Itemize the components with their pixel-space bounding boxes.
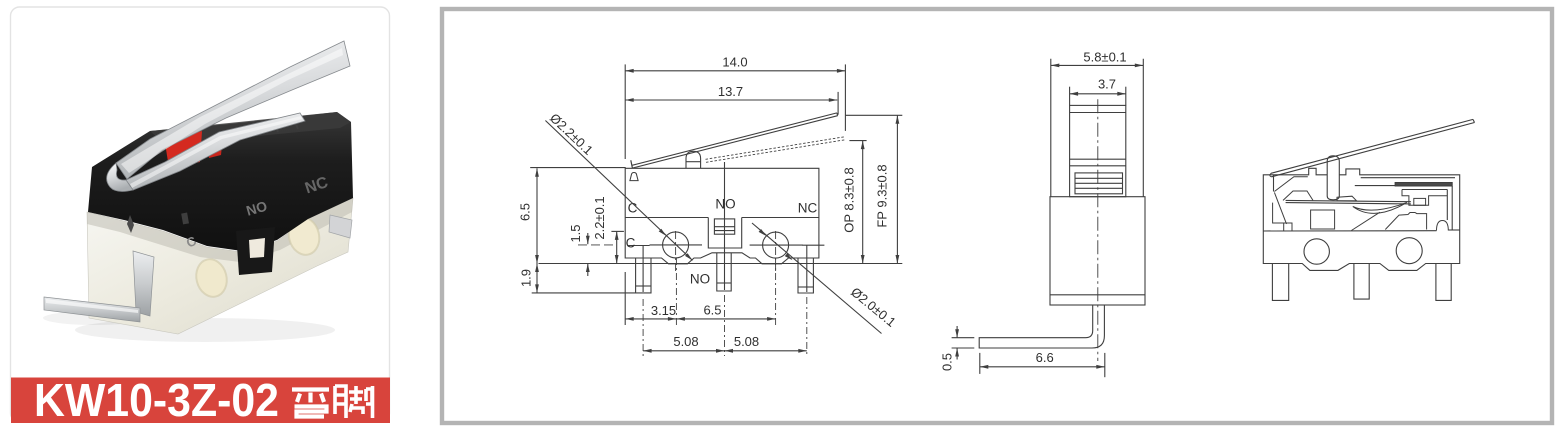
front view: plunger roller [686, 151, 701, 168]
photo: NO plunger housing on base [236, 227, 275, 275]
bottom reference line [539, 263, 903, 265]
svg-text:3.15: 3.15 [651, 303, 676, 318]
section view: right trapezoid bump [1385, 213, 1426, 230]
section view: internal diagonal wall [1351, 212, 1380, 230]
svg-text:OP 8.3±0.8: OP 8.3±0.8 [842, 167, 857, 232]
svg-text:C: C [626, 236, 636, 251]
side view: dim 6.6 [980, 366, 1105, 368]
photo: metal lever U-bend at left [107, 163, 133, 191]
photo: base terminal holes [192, 256, 230, 300]
svg-text:6.6: 6.6 [1036, 350, 1054, 365]
section view: NC contact bar [1395, 183, 1452, 187]
photo: small molded arrow mark [127, 215, 134, 233]
section view: pin right [1436, 264, 1451, 301]
front view: lever free position [631, 160, 633, 168]
section view: bottom outline [1263, 231, 1459, 270]
photo: red button visible through lever slot [165, 131, 202, 168]
side view: dim 3.7 [1070, 93, 1126, 95]
side view: dim 0.5 [952, 337, 975, 339]
side view: dim 5.8±0.1 [1051, 64, 1144, 66]
side view: bent pin [979, 305, 1104, 348]
svg-text:13.7: 13.7 [718, 84, 743, 99]
svg-text:6.5: 6.5 [703, 303, 721, 318]
dim 1.9 left [535, 264, 539, 273]
dim 1.5 [587, 233, 589, 244]
section view: spring support wedge [1337, 196, 1357, 201]
dim 13.7 [625, 99, 837, 101]
CJK char 脚 (foot) drawn [335, 386, 373, 418]
dim 6.5 left [530, 167, 626, 169]
front view: terminal pin NO [717, 253, 731, 291]
svg-text:1.9: 1.9 [519, 269, 534, 287]
svg-text:FP 9.3±0.8: FP 9.3±0.8 [875, 164, 890, 227]
section view: pin center [1354, 264, 1369, 300]
side view: lever cap [1070, 105, 1126, 196]
front view: center line through plunger [724, 162, 726, 290]
svg-text:NC: NC [798, 201, 818, 216]
svg-text:2.2±0.1: 2.2±0.1 [592, 196, 607, 239]
side view: centerline [1097, 99, 1099, 361]
dim FP 9.3±0.8 [845, 114, 902, 116]
svg-text:NO: NO [690, 272, 710, 287]
photo: bent PCB pin (L-shape) bottom-left [133, 251, 154, 316]
photo: lever highlight [121, 48, 343, 173]
front view: terminal hole NC [763, 232, 789, 258]
svg-text:14.0: 14.0 [722, 55, 747, 70]
svg-text:Ø2.0±0.1: Ø2.0±0.1 [848, 284, 899, 330]
section view: plunger capsule [1327, 156, 1339, 200]
leader Ø2.2±0.1 [545, 121, 692, 261]
photo frame [11, 7, 390, 422]
dim OP 8.3±0.8 [849, 140, 866, 142]
section view: hole right [1396, 238, 1422, 264]
photo: body top face [150, 112, 351, 145]
photo: drop shadow under switch [75, 318, 335, 342]
svg-text:Ø2.2±0.1: Ø2.2±0.1 [547, 110, 596, 158]
svg-text:0.5: 0.5 [940, 353, 955, 371]
model banner [11, 378, 390, 424]
side view: lever folded leaf [1075, 173, 1123, 194]
section view: NC contact block [1402, 190, 1447, 206]
section view: base top line [1263, 230, 1436, 232]
section view: movable spring arm [1286, 200, 1411, 201]
front view: body outline [625, 168, 819, 263]
svg-text:1.5: 1.5 [568, 224, 583, 242]
front view: terminal pin C [636, 258, 651, 293]
side view: body [1050, 197, 1145, 305]
photo: black switch body [88, 112, 353, 251]
CJK char 弯 (bent) drawn [292, 390, 329, 417]
front view: C terminal tick [628, 245, 649, 247]
section view: right arch bump [1437, 221, 1449, 231]
section view: internal left step [1273, 203, 1292, 231]
dim 2.2±0.1 [616, 231, 618, 263]
svg-text:3.7: 3.7 [1098, 77, 1116, 92]
svg-text:5.08: 5.08 [734, 334, 759, 349]
section view: curved spring [1353, 203, 1407, 214]
front view: NO contact window [714, 219, 734, 234]
section view: right inner walls [1451, 186, 1453, 231]
dim 5.08 x2 [643, 350, 807, 352]
photo: metal lever lower strip (folded return) [126, 113, 305, 190]
front view: terminal pin NC [798, 258, 813, 293]
leader Ø2.0±0.1 [752, 223, 882, 334]
svg-text:NO: NO [715, 197, 735, 212]
section view: lever [1271, 119, 1473, 173]
front view: internal horizontal wall [625, 217, 708, 219]
svg-text:5.8±0.1: 5.8±0.1 [1083, 49, 1126, 64]
section view: body outline top [1263, 168, 1459, 264]
svg-text:6.5: 6.5 [518, 203, 533, 221]
section view: inner top lines [1361, 177, 1455, 179]
front view: plunger channel [708, 218, 741, 249]
photo: NC side pin [329, 215, 352, 238]
section view: center contact block [1311, 210, 1335, 229]
front view: bell mark [630, 173, 638, 181]
front view: terminal hole C [663, 232, 689, 258]
photo: metal lever main strip [116, 41, 350, 179]
section view: hole left [1304, 239, 1329, 264]
svg-text:5.08: 5.08 [673, 334, 698, 349]
section view: pin left [1272, 264, 1288, 301]
front view: lever pressed position (dashed) [706, 137, 844, 159]
dim 14.0 [625, 70, 845, 72]
section view: spring anchor left [1273, 175, 1275, 192]
front view: NC terminal tick [802, 244, 824, 246]
drawing border box [442, 9, 1552, 423]
svg-text:KW10-3Z-02: KW10-3Z-02 [34, 374, 279, 426]
photo: body mould ribs [234, 119, 298, 138]
dim 3.15 / 6.5 bottom [625, 318, 775, 320]
photo: shading on base under body [87, 198, 353, 262]
